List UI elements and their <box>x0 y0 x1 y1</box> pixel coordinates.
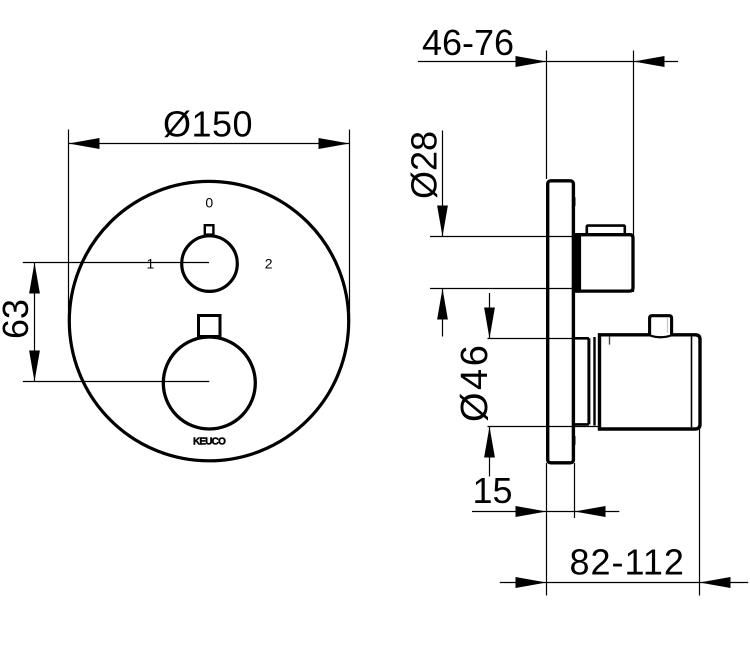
svg-text:Ø28: Ø28 <box>404 131 445 199</box>
svg-text:1: 1 <box>147 256 155 272</box>
svg-text:82-112: 82-112 <box>570 542 685 583</box>
svg-text:Ø46: Ø46 <box>454 343 496 422</box>
svg-text:0: 0 <box>205 194 213 210</box>
svg-text:Ø150: Ø150 <box>163 104 253 145</box>
svg-text:15: 15 <box>473 470 513 511</box>
svg-text:2: 2 <box>265 256 273 272</box>
svg-text:KEUCO: KEUCO <box>193 436 226 447</box>
svg-text:46-76: 46-76 <box>422 22 514 63</box>
svg-text:63: 63 <box>0 299 36 339</box>
